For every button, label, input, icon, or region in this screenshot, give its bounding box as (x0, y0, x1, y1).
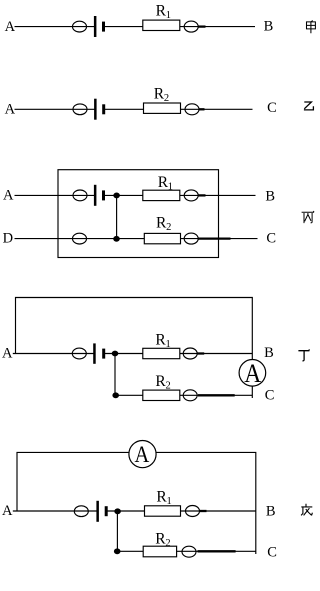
resistor R1 (143, 348, 180, 358)
thick wire nub (199, 510, 206, 512)
switch circle (72, 348, 86, 359)
junction node (114, 508, 121, 514)
wire junction vertical (116, 511, 118, 551)
label 戊 (301, 504, 312, 516)
switch circle (74, 506, 88, 517)
battery short plate (102, 190, 105, 200)
battery short plate (102, 349, 105, 359)
svg-text:2: 2 (166, 222, 171, 233)
svg-text:B: B (266, 503, 276, 519)
battery long plate (96, 501, 99, 522)
svg-text:1: 1 (168, 182, 173, 193)
svg-text:2: 2 (164, 93, 169, 104)
wire A to battery (15, 26, 96, 28)
resistor R2 (143, 390, 180, 400)
resistor R1 (143, 190, 180, 200)
meter circle (186, 506, 200, 517)
thick wire segment (198, 550, 236, 552)
wire A to battery (15, 108, 96, 110)
meter circle top (184, 190, 198, 201)
enclosure box (58, 170, 219, 258)
junction node (112, 351, 119, 357)
svg-text:2: 2 (166, 381, 171, 392)
svg-text:B: B (264, 345, 274, 361)
wire D to C (15, 238, 258, 240)
meter circle (184, 21, 198, 32)
svg-text:C: C (266, 231, 276, 247)
meter circle (183, 348, 197, 359)
resistor R2 (144, 103, 181, 113)
svg-text:1: 1 (166, 339, 171, 350)
svg-text:B: B (265, 188, 275, 204)
junction node bottom (113, 236, 120, 242)
thick wire nub (198, 25, 206, 27)
junction node 2 (114, 548, 121, 554)
svg-text:C: C (265, 387, 275, 403)
svg-text:A: A (5, 102, 16, 118)
junction node top (113, 193, 120, 199)
meter circle 2 (183, 390, 197, 401)
wire battery to C (103, 108, 252, 110)
label 丁 (298, 349, 309, 360)
svg-text:A: A (5, 19, 16, 35)
wire battery to B (104, 353, 253, 355)
battery short plate (102, 104, 105, 114)
resistor R2 (144, 233, 180, 243)
junction node 2 (112, 392, 119, 398)
wire R2 branch (117, 550, 255, 552)
svg-text:C: C (267, 100, 277, 116)
svg-text:1: 1 (166, 10, 171, 21)
battery long plate (94, 185, 97, 206)
battery long plate (93, 343, 96, 363)
svg-text:2: 2 (165, 538, 170, 549)
svg-text:1: 1 (167, 496, 172, 507)
svg-text:C: C (267, 544, 277, 560)
thick wire nub (199, 108, 205, 110)
meter circle 2 (182, 546, 196, 557)
svg-text:A: A (2, 503, 13, 519)
label 甲 (307, 21, 316, 34)
resistor R1 (145, 506, 181, 516)
thick wire segment (198, 394, 235, 396)
resistor R1 (143, 20, 180, 30)
wire battery to B (106, 510, 256, 512)
svg-text:A: A (244, 358, 261, 388)
thick wire nub (197, 352, 204, 354)
svg-text:A: A (2, 346, 13, 362)
label 乙 (304, 102, 314, 110)
wire junction vertical (116, 195, 118, 238)
svg-text:A: A (3, 187, 14, 203)
switch circle S2 (73, 104, 87, 115)
battery short plate (105, 506, 108, 516)
meter circle bottom (184, 233, 198, 244)
wire A to battery (13, 510, 98, 512)
battery long plate (94, 99, 97, 120)
resistor R2 (143, 546, 176, 557)
svg-text:A: A (135, 442, 150, 468)
wire top loop (17, 452, 256, 554)
thick wire nub (198, 194, 206, 196)
wire battery to B (103, 26, 255, 28)
svg-text:D: D (3, 231, 13, 247)
battery long plate (94, 16, 97, 37)
switch circle top (73, 190, 87, 201)
wire A to battery (15, 194, 96, 196)
wire junction vertical (114, 354, 116, 396)
meter circle (185, 104, 199, 115)
thick wire segment (198, 237, 231, 239)
wire top loop (16, 298, 253, 399)
wire A to battery (13, 353, 95, 355)
ammeter A2 (129, 441, 156, 468)
wire R2 branch (115, 394, 252, 396)
wire battery to B (103, 194, 256, 196)
ammeter A1 (239, 360, 266, 387)
svg-text:B: B (264, 18, 274, 34)
switch circle S1 (73, 21, 87, 32)
battery short plate (102, 22, 105, 32)
switch circle bottom (73, 233, 87, 244)
label 丙 (302, 211, 315, 223)
